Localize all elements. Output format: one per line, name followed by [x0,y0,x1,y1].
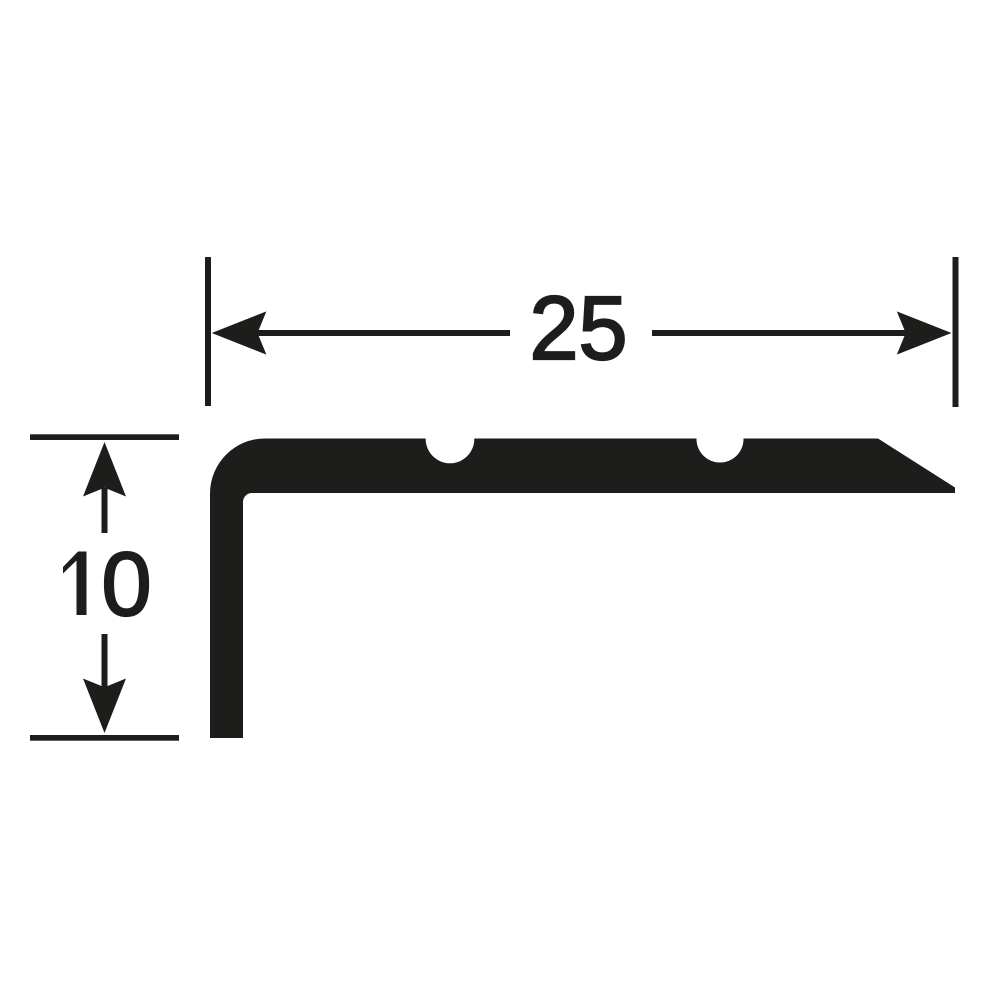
dim line 25 right segment [652,330,908,336]
arrowhead up (10) [83,442,126,497]
extension line bottom (10 dim) [30,735,179,741]
notch hole 1 [426,415,475,464]
L-profile body (25x10 angle) [210,439,955,739]
label 10 digit 1 [63,552,87,616]
arrowhead down (10) [83,679,126,734]
arrowhead left (25) [212,311,267,354]
extension line right (25 dim) [953,257,959,407]
svg-text:0: 0 [101,535,151,635]
notch hole 2 [697,416,744,463]
svg-text:25: 25 [530,279,628,379]
dim line 25 left segment [255,330,510,336]
dim line 10 lower segment [102,634,108,688]
extension line left (25 dim) [205,257,211,406]
dim line 10 upper segment [102,488,108,533]
arrowhead right (25) [897,311,952,354]
extension line top (10 dim) [30,434,179,440]
